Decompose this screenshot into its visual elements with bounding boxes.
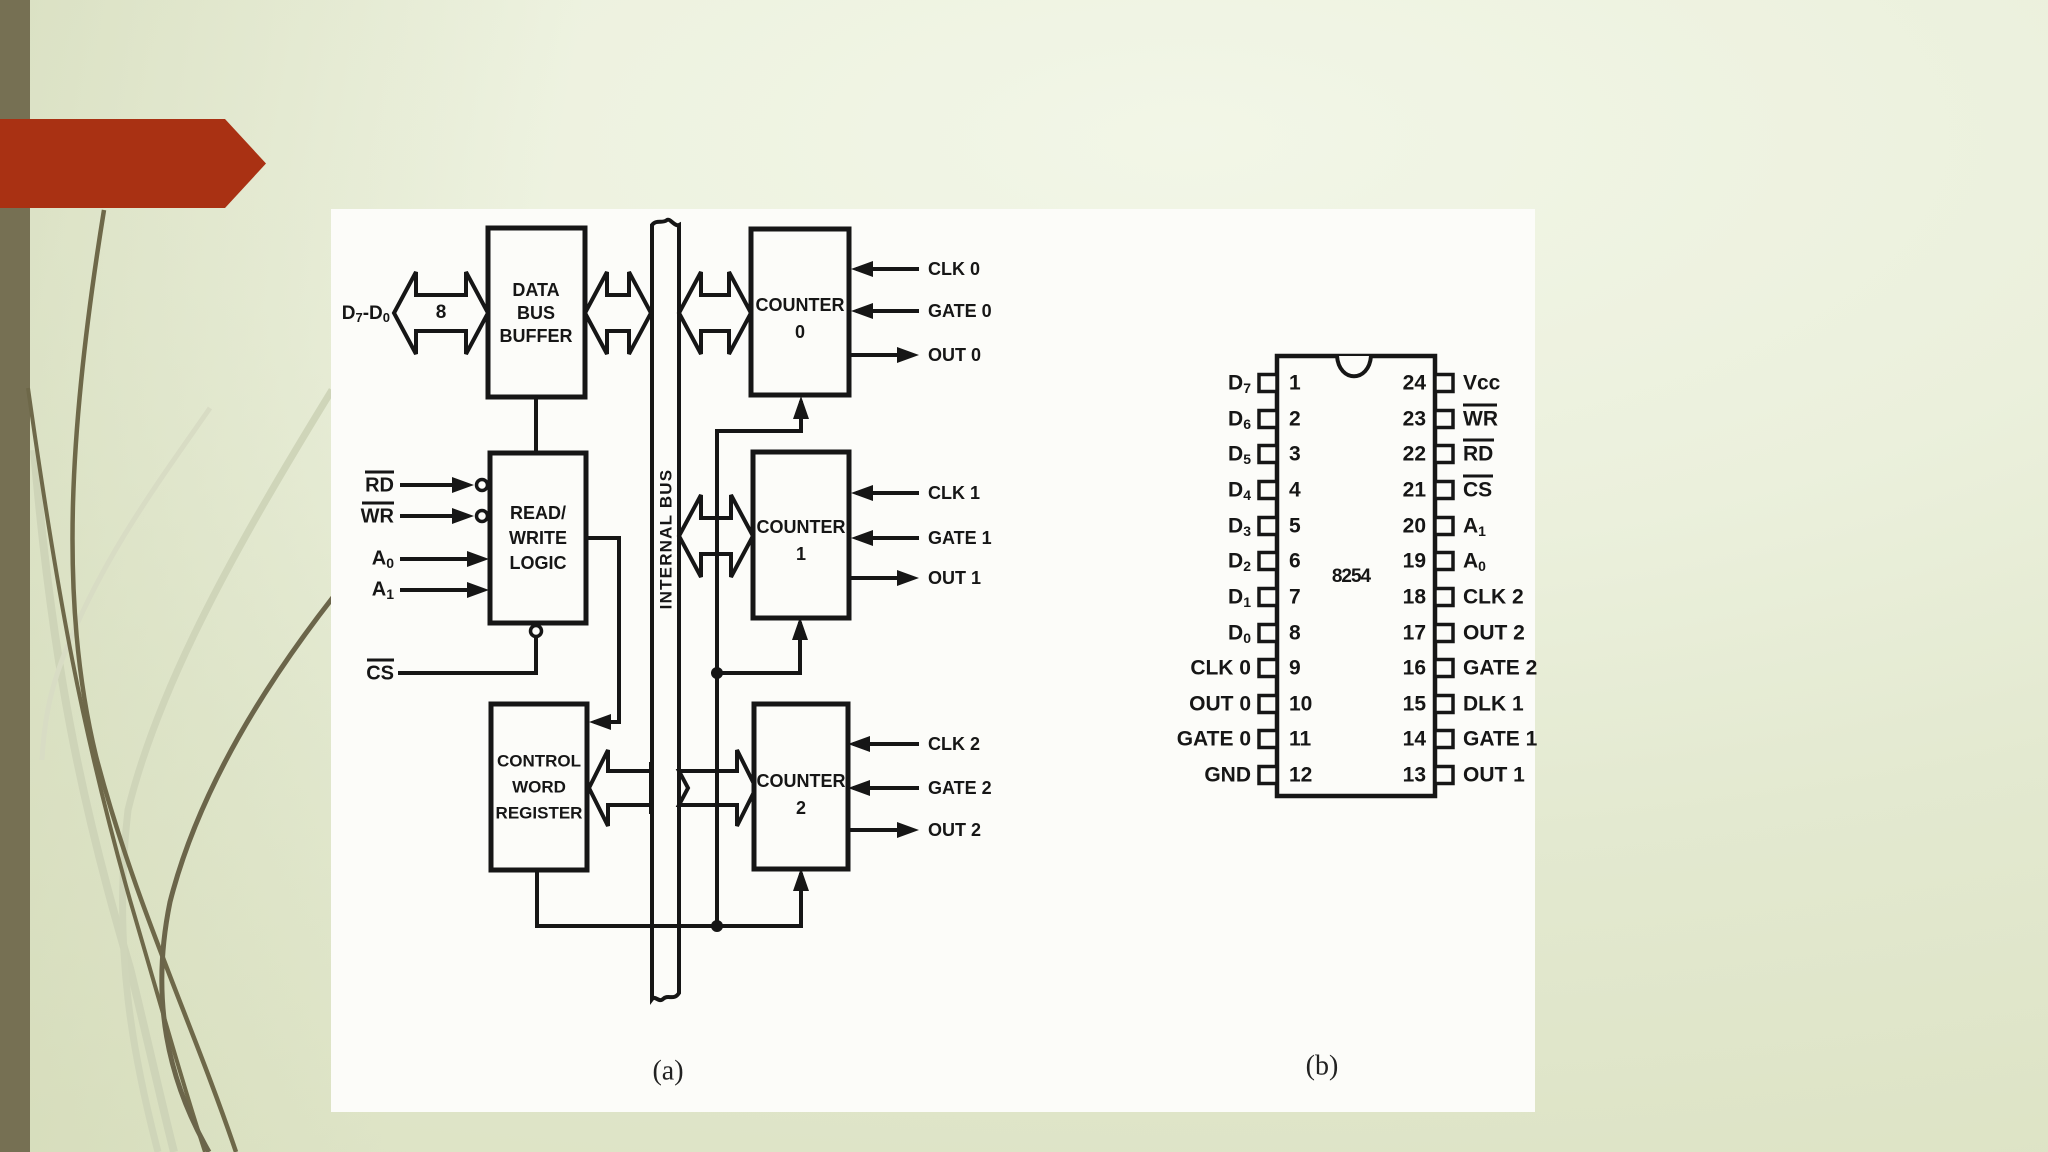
input GATE 0 [856,309,919,313]
svg-text:(b): (b) [1306,1050,1339,1081]
svg-text:CS: CS [1463,479,1492,502]
svg-text:INTERNAL BUS: INTERNAL BUS [656,469,675,610]
svg-text:COUNTER: COUNTER [757,771,846,791]
svg-text:23: 23 [1403,408,1426,431]
svg-text:10: 10 [1289,693,1312,716]
pin 7 D1 [1259,589,1277,606]
svg-text:REGISTER: REGISTER [496,803,583,822]
decorative pale curve P3 [42,408,210,760]
pin 23 WR [1435,411,1453,428]
wire RW logic to CWR [586,538,619,722]
svg-text:CS: CS [366,662,394,684]
svg-text:GATE 2: GATE 2 [928,778,992,798]
data bus buffer U-DBB [488,228,585,397]
svg-text:GATE 2: GATE 2 [1463,657,1537,680]
svg-text:3: 3 [1289,443,1301,466]
svg-text:7: 7 [1289,586,1301,609]
svg-text:18: 18 [1403,586,1427,609]
pin 24 Vcc [1435,375,1453,392]
pin 18 CLK 2 [1435,589,1453,606]
decorative dark curve D2 [72,210,236,1152]
svg-text:OUT 1: OUT 1 [1463,764,1525,787]
svg-text:RD: RD [365,474,394,496]
svg-text:GND: GND [1204,764,1251,787]
svg-text:CLK 0: CLK 0 [1190,657,1251,680]
svg-text:22: 22 [1403,443,1426,466]
svg-text:1: 1 [796,544,806,564]
svg-text:1: 1 [1289,372,1301,395]
pin 5 D3 [1259,518,1277,535]
svg-text:COUNTER: COUNTER [756,295,845,315]
svg-text:24: 24 [1403,372,1427,395]
svg-text:(a): (a) [652,1055,683,1086]
pin 13 OUT 1 [1435,767,1453,784]
svg-text:19: 19 [1403,550,1426,573]
counter 2 block [754,704,848,869]
input CLK 2 [853,742,919,746]
svg-text:CLK 0: CLK 0 [928,259,980,279]
IC body 8254 DIP [1277,356,1435,796]
svg-text:COUNTER: COUNTER [757,517,846,537]
read/write logic block [490,453,586,623]
svg-text:CLK 2: CLK 2 [1463,586,1524,609]
wire long vertical to counters [717,401,801,926]
output OUT 2 [849,828,899,832]
node junction bottom [711,920,723,932]
svg-text:17: 17 [1403,622,1426,645]
svg-text:8: 8 [1289,622,1301,645]
svg-text:OUT 2: OUT 2 [928,820,981,840]
pin 16 GATE 2 [1435,660,1453,677]
pin 1 D7 [1259,375,1277,392]
pin 10 OUT 0 [1259,696,1277,713]
pin 9 CLK 0 [1259,660,1277,677]
input GATE 2 [853,786,919,790]
control word register block [491,704,587,870]
svg-text:WR: WR [1463,408,1498,431]
svg-text:CONTROL: CONTROL [497,751,581,770]
svg-text:DATA: DATA [512,280,559,300]
svg-text:0: 0 [795,322,805,342]
pin 20 A1 [1435,518,1453,535]
svg-text:WRITE: WRITE [509,528,567,548]
svg-text:READ/: READ/ [510,503,566,523]
svg-text:DLK 1: DLK 1 [1463,693,1524,716]
svg-text:16: 16 [1403,657,1426,680]
svg-text:8: 8 [436,302,447,323]
output OUT 1 [849,576,899,580]
svg-text:BUS: BUS [517,303,555,323]
svg-text:9: 9 [1289,657,1301,680]
svg-text:12: 12 [1289,764,1312,787]
svg-text:21: 21 [1403,479,1427,502]
svg-text:GATE 0: GATE 0 [928,301,992,321]
svg-text:GATE 1: GATE 1 [928,528,992,548]
wire CWR bottom to counter 2 [537,870,801,926]
svg-text:8254: 8254 [1332,566,1372,587]
counter 1 block [753,452,849,618]
wire DBB to RW logic [534,397,538,453]
wire to counter 1 [717,622,800,673]
svg-text:CLK 2: CLK 2 [928,734,980,754]
decorative pale curve P2 [123,390,332,1152]
svg-text:13: 13 [1403,764,1426,787]
bus arrow internal bus to CWR [589,750,651,826]
svg-text:WR: WR [361,505,395,527]
svg-text:CLK 1: CLK 1 [928,483,980,503]
svg-text:11: 11 [1289,728,1312,751]
output OUT 0 [849,353,899,357]
svg-text:LOGIC: LOGIC [510,553,567,573]
pin 11 GATE 0 [1259,731,1277,748]
pin 12 GND [1259,767,1277,784]
bus arrow internal bus to counter 0 [679,272,751,354]
decorative dark curve D1 [28,388,205,1152]
svg-text:6: 6 [1289,550,1301,573]
pin 17 OUT 2 [1435,625,1453,642]
pin 8 D0 [1259,625,1277,642]
svg-text:5: 5 [1289,515,1301,538]
red banner arrow [0,119,266,208]
decorative dark curve D3 [162,596,334,1152]
pin 3 D5 [1259,446,1277,463]
left olive sidebar [0,0,30,1152]
scanned figure white area [331,209,1535,1112]
input GATE 1 [856,536,919,540]
counter 0 block [751,229,849,395]
svg-text:Vcc: Vcc [1463,372,1501,395]
bus left edge over CWR arrow tail [649,762,653,814]
bus arrow DBB to internal bus [585,272,651,354]
svg-text:14: 14 [1403,728,1427,751]
pin 4 D4 [1259,482,1277,499]
pin 22 RD [1435,446,1453,463]
svg-text:OUT 0: OUT 0 [1189,693,1251,716]
pin 15 DLK 1 [1435,696,1453,713]
pin 19 A0 [1435,553,1453,570]
IC notch [1337,356,1371,376]
svg-text:OUT 0: OUT 0 [928,345,981,365]
svg-text:D7-D0: D7-D0 [342,303,390,325]
bus arrow D7-D0 to DBB [394,272,488,354]
decorative pale curve P1 [34,450,174,1152]
svg-text:RD: RD [1463,443,1493,466]
svg-text:4: 4 [1289,479,1301,502]
bus arrow internal bus to counter 1 [679,495,753,577]
pin 14 GATE 1 [1435,731,1453,748]
svg-text:20: 20 [1403,515,1426,538]
svg-text:2: 2 [1289,408,1301,431]
internal bus [652,220,679,1000]
svg-text:2: 2 [796,798,806,818]
svg-text:OUT 1: OUT 1 [928,568,981,588]
input CLK 0 [856,267,919,271]
bus arrow internal bus to counter 2 [679,750,756,826]
svg-text:OUT 2: OUT 2 [1463,622,1525,645]
svg-text:GATE 0: GATE 0 [1177,728,1251,751]
node junction counter1 feed [711,667,723,679]
svg-text:WORD: WORD [512,777,566,796]
pin 21 CS [1435,482,1453,499]
svg-text:GATE 1: GATE 1 [1463,728,1538,751]
pin 6 D2 [1259,553,1277,570]
svg-text:15: 15 [1403,693,1427,716]
svg-text:BUFFER: BUFFER [500,326,573,346]
input CLK 1 [856,491,919,495]
pin 2 D6 [1259,411,1277,428]
